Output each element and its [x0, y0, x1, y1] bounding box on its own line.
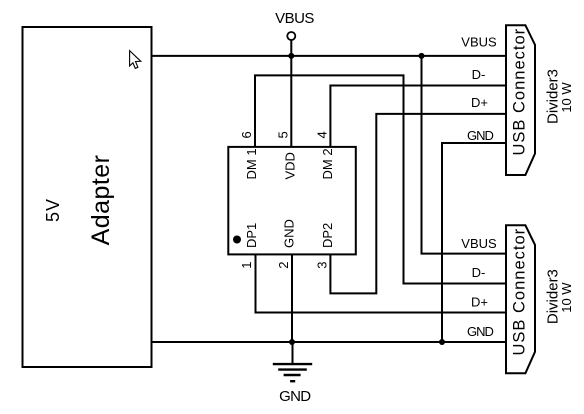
- svg-text:VDD: VDD: [283, 152, 298, 179]
- wire pin 6 DM1 to bottom connector D-: [255, 75, 506, 283]
- junction dot VBUS/VDD: [288, 53, 294, 59]
- wire top connector GND riser: [442, 143, 506, 342]
- svg-text:DP2: DP2: [320, 223, 335, 248]
- svg-text:DP1: DP1: [244, 223, 259, 248]
- svg-text:USB Connector: USB Connector: [511, 28, 529, 156]
- net VBUS wire (adapter to top connector VBUS): [152, 55, 507, 57]
- pin-1 marker dot: [233, 236, 241, 244]
- wire pin 3 DP2 to top connector D+: [330, 114, 506, 294]
- svg-text:D+: D+: [471, 95, 488, 110]
- svg-text:GND: GND: [467, 324, 494, 339]
- svg-text:GND: GND: [282, 219, 297, 248]
- svg-text:10 W: 10 W: [559, 82, 574, 113]
- svg-text:D+: D+: [471, 295, 488, 310]
- svg-text:6: 6: [239, 131, 254, 138]
- adapter X1 (5V Adapter): [23, 27, 152, 367]
- USB connector J2 (bottom) body: [506, 225, 535, 373]
- ground symbol: [273, 342, 312, 405]
- wire pin 1 DP1 to bottom connector D+: [256, 254, 507, 312]
- svg-text:5V: 5V: [43, 198, 63, 222]
- svg-text:1: 1: [239, 262, 254, 269]
- wire pin 5 VDD stub: [290, 56, 292, 147]
- svg-text:Adapter: Adapter: [87, 155, 115, 246]
- junction dot VBUS feed to bottom connector: [419, 53, 425, 59]
- svg-text:VBUS: VBUS: [275, 10, 314, 27]
- junction dot GND/pin2: [289, 339, 295, 345]
- svg-text:2: 2: [276, 262, 291, 269]
- svg-text:VBUS: VBUS: [461, 236, 497, 251]
- svg-text:DM 2: DM 2: [320, 148, 335, 179]
- wire pin 2 GND stub: [291, 254, 293, 342]
- svg-text:GND: GND: [279, 388, 311, 405]
- svg-text:VBUS: VBUS: [461, 35, 497, 50]
- svg-text:10 W: 10 W: [559, 282, 574, 313]
- svg-text:D-: D-: [472, 265, 486, 280]
- net GND wire (adapter to bottom connector GND): [152, 341, 507, 343]
- svg-text:4: 4: [315, 131, 330, 138]
- mouse cursor: [130, 51, 141, 69]
- IC U1 body: [228, 147, 355, 255]
- svg-text:3: 3: [315, 262, 330, 269]
- svg-text:D-: D-: [472, 67, 486, 82]
- junction dot GND/top connector: [439, 339, 445, 345]
- node VBUS terminal circle: [275, 10, 314, 56]
- svg-text:GND: GND: [467, 128, 494, 143]
- wire VBUS drop to bottom connector: [422, 56, 507, 254]
- wire pin 4 DM2 to top connector D-: [330, 86, 506, 147]
- svg-text:DM 1: DM 1: [244, 148, 259, 179]
- svg-text:5: 5: [276, 131, 291, 138]
- svg-text:USB Connector: USB Connector: [511, 228, 529, 356]
- USB connector J1 (top) body: [506, 25, 535, 175]
